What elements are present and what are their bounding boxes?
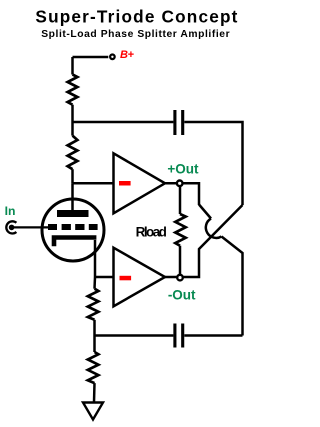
- svg-text:Split-Load Phase Splitter Ampl: Split-Load Phase Splitter Amplifier: [41, 29, 230, 40]
- svg-text:+Out: +Out: [167, 162, 199, 177]
- svg-text:-Out: -Out: [168, 287, 196, 302]
- svg-text:B+: B+: [120, 49, 134, 61]
- svg-text:In: In: [5, 204, 16, 218]
- svg-text:Super-Triode Concept: Super-Triode Concept: [35, 6, 238, 26]
- svg-text:Rload: Rload: [136, 225, 167, 240]
